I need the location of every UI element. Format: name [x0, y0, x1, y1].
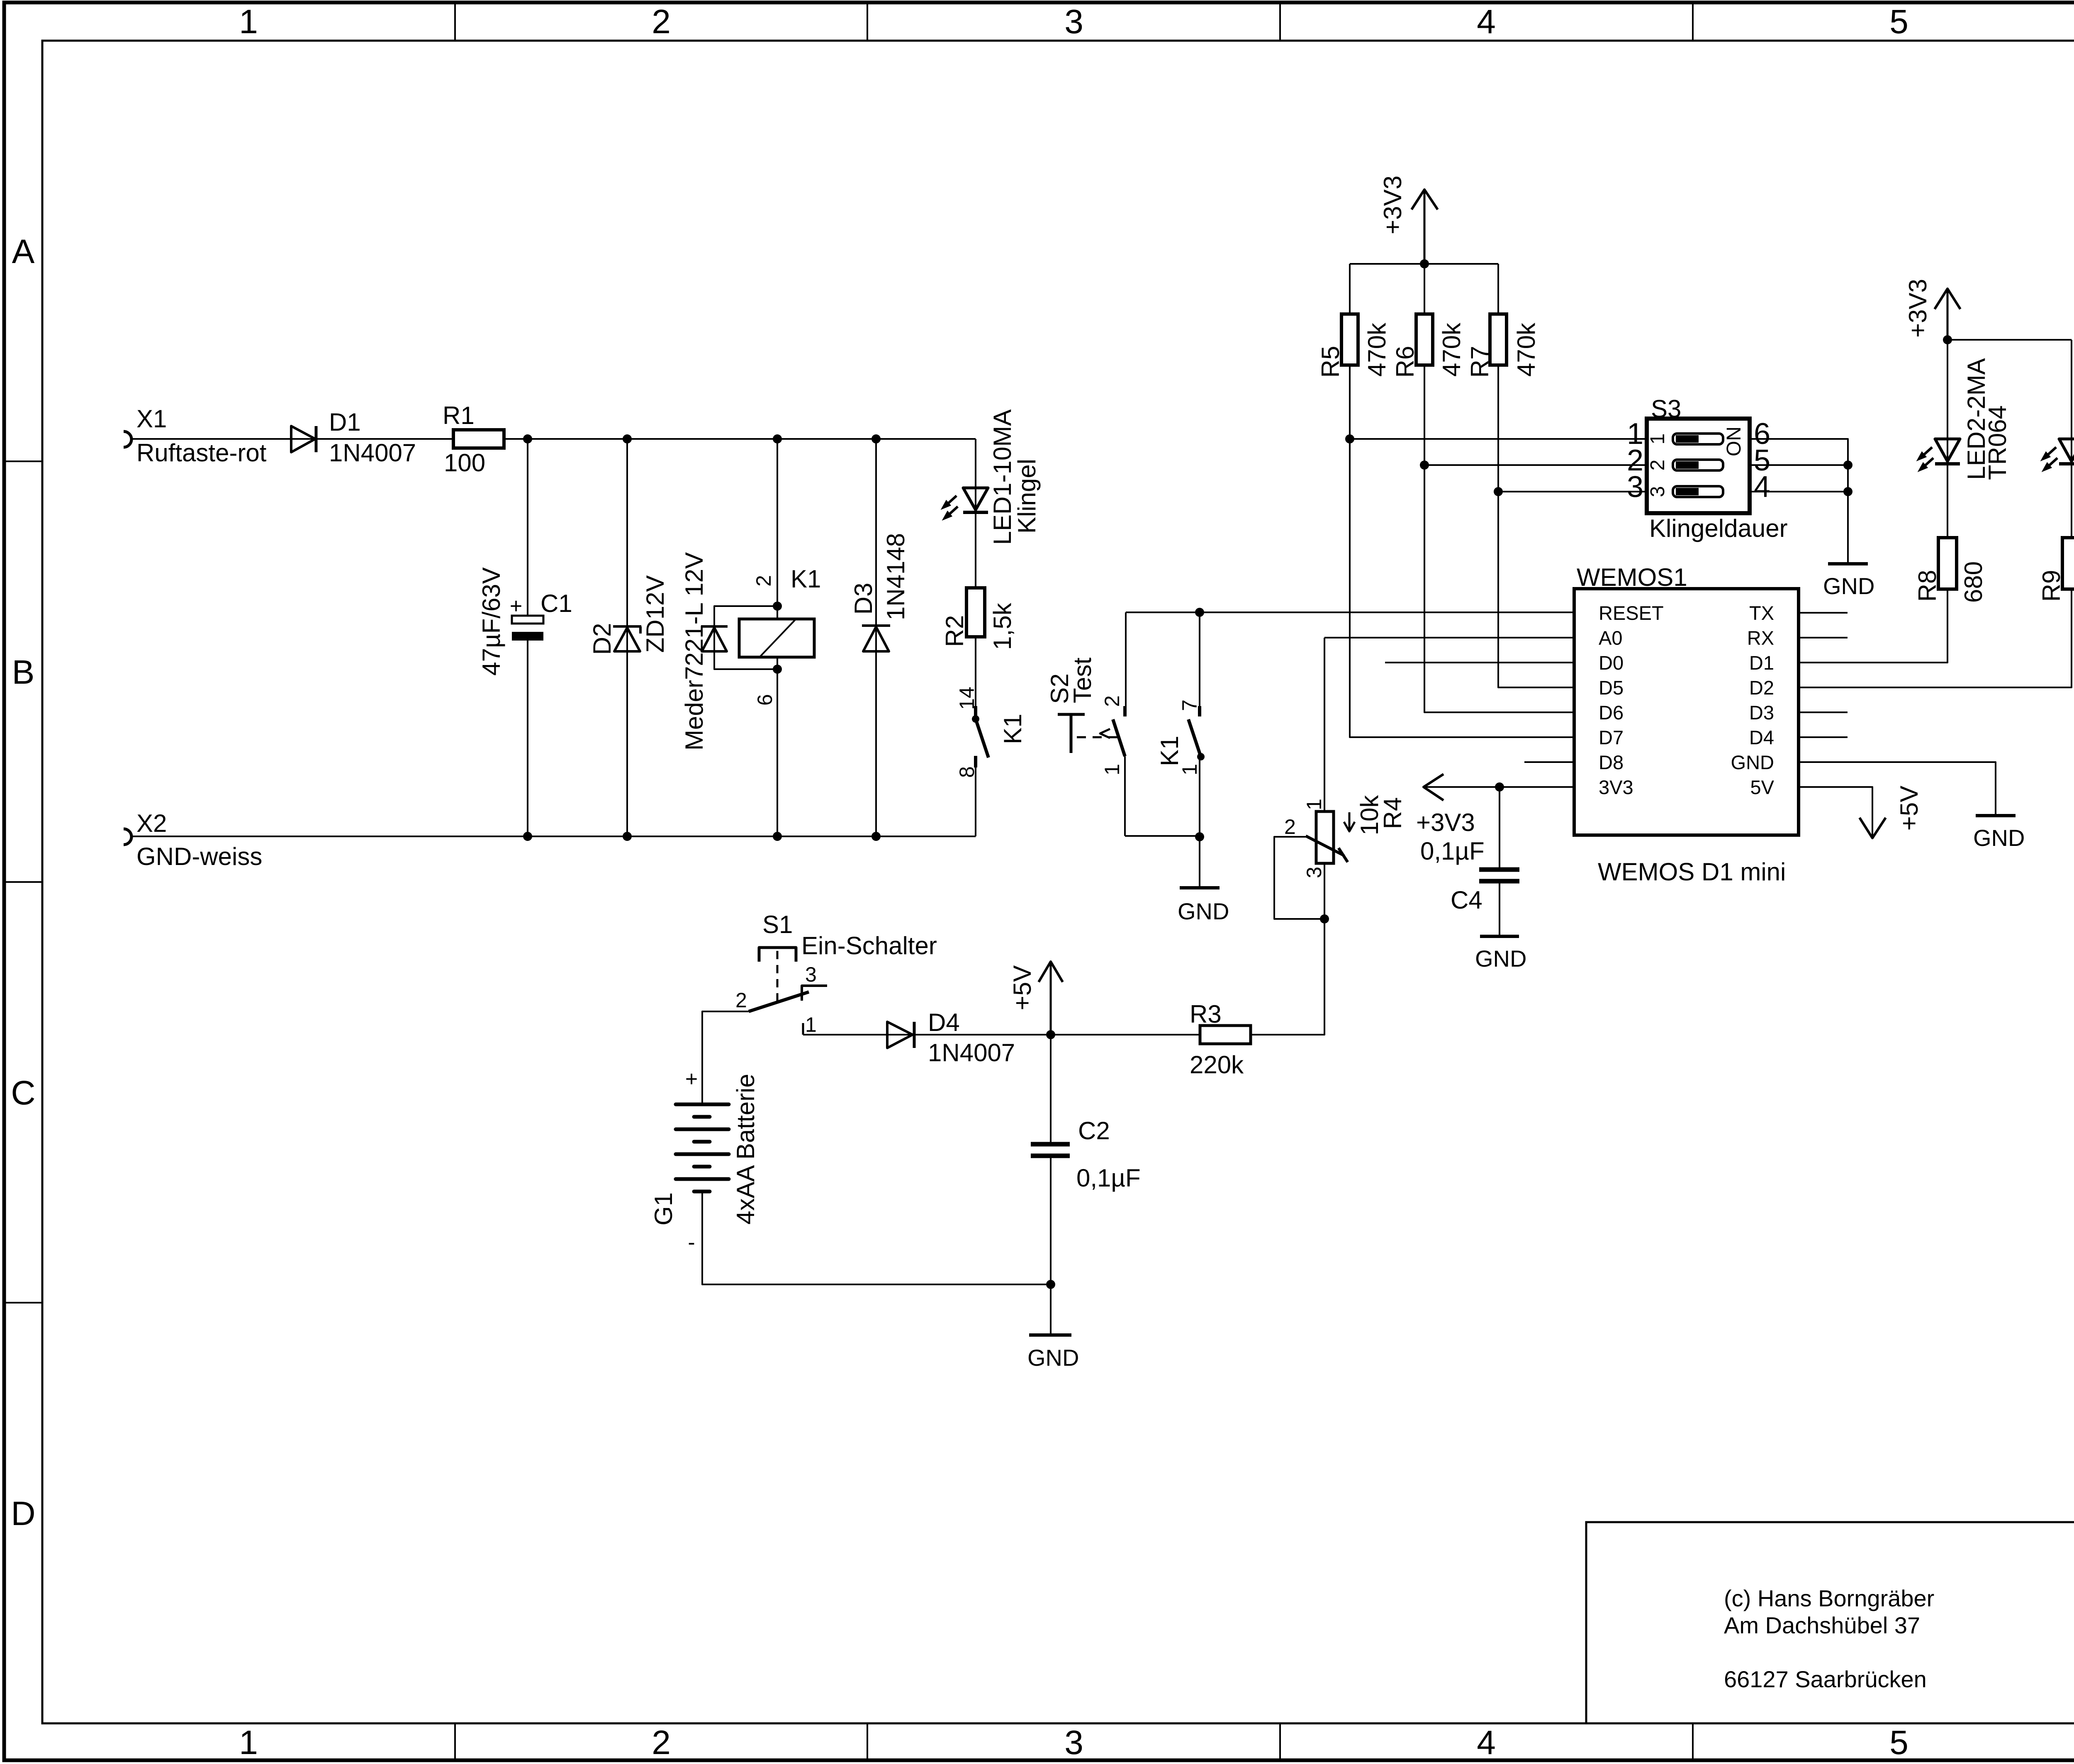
relay K1 coil bracket	[714, 606, 777, 669]
junction bottom rail at C1	[523, 832, 532, 841]
svg-text:100: 100	[444, 449, 485, 477]
wire S2 bottom	[1124, 756, 1126, 836]
svg-text:0,1µF: 0,1µF	[1076, 1164, 1141, 1192]
svg-text:D7: D7	[1599, 726, 1624, 748]
svg-text:+5V: +5V	[1895, 786, 1923, 831]
junction K1 coil pin 6	[773, 665, 782, 674]
wire R6 to D6	[1424, 365, 1574, 712]
switch S1 pin 1 contact	[802, 1023, 804, 1035]
svg-text:2: 2	[652, 1724, 671, 1762]
wire R7 to D5	[1498, 365, 1574, 687]
svg-text:5V: 5V	[1750, 776, 1775, 798]
relay K1 suppressor diode	[701, 625, 728, 628]
svg-text:1: 1	[239, 1724, 258, 1762]
junction R4 pin3/pin2	[1320, 914, 1329, 923]
svg-text:3: 3	[1647, 486, 1669, 497]
title block outline	[1586, 1522, 2074, 1723]
svg-text:D6: D6	[1599, 702, 1624, 724]
wire A0 to R4 pin1	[1324, 638, 1325, 811]
svg-text:470k: 470k	[1438, 322, 1465, 377]
relay contact K1 left	[974, 706, 977, 716]
svg-text:+5V: +5V	[1008, 965, 1036, 1010]
ground symbol WEMOS	[1976, 814, 2016, 817]
wire +3V3 to R9 branch	[1947, 339, 2072, 341]
diode D1	[291, 426, 315, 452]
svg-text:R9: R9	[2037, 570, 2065, 602]
wire K1 coil top	[777, 439, 778, 619]
wire R8 to D1 pin	[1799, 589, 1947, 663]
svg-text:TX: TX	[1749, 602, 1774, 624]
LED1 emission arrows	[948, 496, 957, 503]
wire battery plus to S1	[702, 1011, 749, 1104]
svg-text:D4: D4	[928, 1009, 960, 1036]
svg-text:D2: D2	[1749, 677, 1774, 699]
svg-text:D0: D0	[1599, 652, 1624, 674]
wire K1 contact to bottom rail	[975, 767, 976, 836]
wire 5V pin net	[1799, 787, 1872, 838]
wire S2 to K1 bottom link	[1125, 835, 1200, 837]
svg-text:GND: GND	[1178, 898, 1229, 924]
svg-text:Am Dachshübel 37: Am Dachshübel 37	[1724, 1612, 1920, 1638]
LED LED2	[1935, 439, 1960, 461]
junction RESET at K1 right	[1195, 608, 1204, 617]
svg-text:5: 5	[1889, 1724, 1908, 1762]
resistor R5	[1341, 314, 1358, 365]
wire RESET net	[1126, 612, 1574, 613]
wire D4 stub	[1799, 736, 1848, 738]
wire R2 to K1 contact	[975, 637, 976, 706]
switch S1 blade	[749, 992, 809, 1011]
svg-text:4: 4	[1477, 3, 1496, 41]
supply +5V arrow battery	[1050, 962, 1052, 1035]
svg-text:GND: GND	[1027, 1345, 1079, 1371]
wire C4 top	[1499, 787, 1500, 867]
svg-text:3: 3	[1064, 3, 1083, 41]
svg-text:D5: D5	[1599, 677, 1624, 699]
svg-text:ZD12V: ZD12V	[641, 575, 669, 653]
svg-text:-: -	[688, 1230, 695, 1255]
capacitor C1 positive plate	[512, 616, 543, 624]
DIP switch S3 slider 3	[1673, 486, 1723, 497]
svg-text:220k: 220k	[1190, 1051, 1244, 1079]
svg-text:1: 1	[1647, 434, 1669, 445]
resistor R7	[1490, 314, 1507, 365]
svg-text:+3V3: +3V3	[1379, 175, 1407, 234]
ground symbol S3	[1828, 562, 1868, 565]
DIP switch S3 slider 1	[1673, 434, 1723, 444]
svg-text:TR064: TR064	[1984, 405, 2011, 480]
ground symbol C4	[1480, 935, 1519, 938]
wire R7 top	[1497, 264, 1499, 314]
wire R4 pin3	[1324, 863, 1325, 919]
wire S3 pin4	[1750, 491, 1848, 492]
diode D3	[862, 624, 890, 627]
wire R4 pin2 bracket	[1274, 837, 1324, 919]
junction R5/S3 pin1	[1345, 434, 1354, 443]
wire R3 to R4 riser	[1251, 919, 1324, 1035]
svg-text:GND: GND	[1973, 825, 2025, 851]
junction K1 coil pin 2	[773, 602, 782, 611]
LED3 emission arrows	[2048, 447, 2056, 455]
svg-text:B: B	[12, 653, 35, 691]
wire top rail corner to LED1	[975, 439, 976, 588]
svg-text:7: 7	[1178, 699, 1201, 711]
wire R9 to D2 pin	[1799, 589, 2072, 687]
junction top rail at D3	[871, 434, 881, 443]
svg-text:470k: 470k	[1363, 322, 1391, 377]
svg-text:D3: D3	[850, 583, 877, 615]
svg-text:K1: K1	[999, 714, 1027, 744]
svg-text:47µF/63V: 47µF/63V	[477, 567, 505, 675]
svg-text:D2: D2	[588, 623, 616, 655]
svg-text:A: A	[12, 233, 35, 270]
ground symbol battery	[1029, 1333, 1071, 1337]
svg-text:6: 6	[753, 694, 777, 706]
svg-text:4xAA Batterie: 4xAA Batterie	[732, 1074, 759, 1225]
junction top rail at D2	[623, 434, 632, 443]
frame column dividers	[454, 2, 456, 41]
wire D8 stub	[1524, 761, 1574, 763]
svg-text:R5: R5	[1317, 346, 1344, 378]
wire X2 bottom rail	[131, 836, 976, 837]
svg-text:0,1µF: 0,1µF	[1420, 837, 1485, 865]
svg-text:3: 3	[805, 963, 817, 986]
svg-text:1: 1	[805, 1013, 817, 1036]
wire C1 bottom	[527, 641, 528, 836]
svg-text:R2: R2	[941, 615, 969, 647]
switch S1 pin 3 contact	[802, 986, 827, 1001]
wire S3 pin3	[1498, 491, 1647, 492]
svg-text:66127 Saarbrücken: 66127 Saarbrücken	[1724, 1666, 1927, 1692]
junction R7/S3 pin3	[1494, 487, 1503, 496]
battery G1	[676, 1103, 729, 1106]
junction bottom rail at K1	[773, 832, 782, 841]
svg-text:Klingel: Klingel	[1013, 459, 1041, 534]
resistor R3	[1200, 1026, 1251, 1044]
resistor R1	[453, 430, 504, 448]
wire D0 stub	[1385, 662, 1574, 663]
wire S3 pin2	[1424, 464, 1647, 466]
switch S2 Test	[1123, 706, 1127, 716]
svg-text:Ruftaste-rot: Ruftaste-rot	[136, 439, 267, 467]
capacitor C1 negative plate	[512, 632, 543, 641]
svg-text:WEMOS1: WEMOS1	[1577, 563, 1687, 591]
wire 3V3 pin net	[1424, 786, 1574, 788]
wire LED3 top	[2071, 340, 2072, 538]
svg-text:1N4007: 1N4007	[329, 439, 416, 467]
svg-text:3V3: 3V3	[1599, 776, 1633, 798]
junction bottom rail at D3	[871, 832, 881, 841]
svg-text:+: +	[685, 1067, 698, 1091]
LED2 emission arrows	[1924, 447, 1932, 455]
diode D4	[887, 1022, 913, 1048]
wire RX stub	[1799, 637, 1848, 638]
wire S3 pin1	[1350, 438, 1647, 440]
resistor R9	[2062, 538, 2074, 589]
svg-text:S3: S3	[1651, 395, 1681, 423]
svg-text:3: 3	[1302, 867, 1326, 878]
svg-text:Test: Test	[1069, 658, 1096, 703]
trimmer R4	[1316, 811, 1334, 863]
svg-text:C: C	[11, 1074, 35, 1112]
svg-text:LED1-10MA: LED1-10MA	[988, 409, 1016, 545]
wire S2 drop	[1125, 612, 1127, 706]
capacitor C4	[1479, 867, 1519, 872]
DIP switch S3 slider 2	[1673, 460, 1723, 470]
svg-text:2: 2	[1100, 695, 1124, 707]
switch S1 actuator	[759, 948, 796, 962]
junction C4	[1495, 782, 1504, 792]
junction +3V3 right	[1943, 335, 1952, 344]
wire D3 branch	[875, 439, 877, 836]
svg-text:GND: GND	[1823, 573, 1874, 599]
svg-text:1,5k: 1,5k	[988, 602, 1016, 650]
svg-text:(c) Hans Borngräber: (c) Hans Borngräber	[1724, 1585, 1934, 1611]
svg-text:ON: ON	[1723, 426, 1745, 456]
wire K1 right drop	[1199, 612, 1200, 706]
svg-text:2: 2	[735, 989, 747, 1012]
supply +3V3 arrow top	[1424, 190, 1426, 264]
svg-text:D: D	[11, 1495, 35, 1533]
wire R5 top	[1349, 264, 1351, 314]
junction battery ground node	[1046, 1280, 1055, 1289]
svg-text:GND-weiss: GND-weiss	[136, 843, 262, 870]
svg-text:2: 2	[752, 575, 775, 587]
svg-text:RX: RX	[1747, 627, 1774, 649]
svg-text:S1: S1	[762, 911, 793, 938]
wire +3V3 distribution	[1350, 263, 1498, 265]
wire A0 net	[1324, 637, 1574, 638]
wire S1 pin1 to D4	[803, 1034, 1200, 1035]
relay contact K1 right	[1198, 706, 1201, 716]
junction bottom rail at D2	[623, 832, 632, 841]
svg-text:Meder7221-L 12V: Meder7221-L 12V	[680, 552, 708, 750]
svg-text:R6: R6	[1391, 346, 1419, 378]
trimmer R4 adjust arrow	[1349, 812, 1351, 830]
LED LED1	[963, 488, 988, 510]
wire D3 stub	[1799, 711, 1848, 713]
wire TX stub	[1799, 612, 1848, 614]
relay K1 coil box	[739, 619, 814, 657]
IC WEMOS1 box	[1574, 589, 1799, 835]
svg-text:X2: X2	[136, 809, 167, 837]
svg-text:X1: X1	[136, 405, 167, 433]
svg-text:2: 2	[1284, 815, 1296, 838]
svg-text:+3V3: +3V3	[1904, 279, 1932, 338]
svg-text:470k: 470k	[1512, 322, 1540, 377]
svg-text:14: 14	[955, 687, 979, 710]
svg-text:+: +	[510, 594, 522, 618]
wire C4 bottom	[1499, 883, 1500, 935]
svg-text:GND: GND	[1731, 751, 1774, 773]
wire S3 pin5	[1750, 464, 1848, 466]
junction R6/S3 pin2	[1420, 460, 1429, 470]
resistor R2	[966, 588, 985, 637]
svg-text:2: 2	[1647, 460, 1669, 471]
svg-text:1: 1	[239, 3, 258, 41]
svg-text:WEMOS D1 mini: WEMOS D1 mini	[1598, 858, 1786, 886]
svg-text:1: 1	[1302, 799, 1326, 810]
wire S3 pin6 to ground riser	[1750, 439, 1848, 562]
svg-text:K1: K1	[1156, 736, 1183, 766]
frame row dividers	[4, 460, 42, 462]
svg-text:D1: D1	[1749, 652, 1774, 674]
zener diode D2	[613, 625, 641, 628]
connector X2 pin	[124, 829, 131, 845]
svg-text:3: 3	[1627, 470, 1643, 504]
svg-text:C1: C1	[540, 590, 572, 617]
junction +5V node	[1046, 1030, 1055, 1039]
svg-text:1: 1	[1100, 764, 1124, 775]
wire LED2 top	[1947, 340, 1948, 538]
svg-text:R8: R8	[1913, 570, 1941, 602]
svg-text:3: 3	[1064, 1724, 1083, 1762]
svg-text:D4: D4	[1749, 726, 1774, 748]
svg-text:Ein-Schalter: Ein-Schalter	[801, 932, 937, 960]
svg-text:R4: R4	[1379, 797, 1407, 829]
wire C1 top	[527, 439, 528, 616]
wire battery minus	[702, 1192, 1051, 1284]
svg-text:680: 680	[1960, 561, 1987, 603]
DIP switch S3 box	[1647, 419, 1750, 513]
svg-text:RESET: RESET	[1599, 602, 1664, 624]
wire R6 top	[1424, 264, 1425, 314]
svg-text:D3: D3	[1749, 702, 1774, 724]
resistor R8	[1938, 538, 1957, 589]
svg-text:D1: D1	[329, 408, 361, 436]
supply +5V arrow WEMOS	[1860, 818, 1886, 838]
ground symbol S2/K1	[1180, 886, 1220, 889]
svg-text:C2: C2	[1078, 1117, 1110, 1145]
resistor R6	[1416, 314, 1433, 365]
svg-text:5: 5	[1889, 3, 1908, 41]
svg-text:4: 4	[1754, 470, 1770, 504]
wire D2 branch	[626, 439, 628, 836]
svg-text:R7: R7	[1466, 346, 1494, 378]
wire R5 to D7	[1350, 365, 1574, 737]
wire C2 bottom	[1050, 1158, 1052, 1284]
svg-text:1N4007: 1N4007	[928, 1039, 1015, 1067]
svg-text:GND: GND	[1475, 945, 1526, 972]
svg-text:R1: R1	[443, 402, 475, 429]
svg-text:4: 4	[1477, 1724, 1496, 1762]
svg-text:C4: C4	[1451, 886, 1482, 914]
connector X1 pin	[124, 431, 131, 447]
svg-text:Klingeldauer: Klingeldauer	[1649, 514, 1788, 542]
svg-text:R3: R3	[1190, 1000, 1222, 1028]
svg-text:A0: A0	[1599, 627, 1623, 649]
wire to battery ground	[1050, 1284, 1052, 1333]
supply +3V3 arrow right	[1947, 289, 1949, 340]
svg-text:2: 2	[652, 3, 671, 41]
capacitor C2	[1031, 1142, 1070, 1147]
svg-text:K1: K1	[791, 565, 821, 593]
wire X1 to R1	[131, 438, 453, 440]
junction top rail at C1	[523, 434, 532, 443]
junction S2/K1 ground node	[1195, 832, 1204, 841]
svg-text:+3V3: +3V3	[1416, 809, 1475, 836]
wire K1 coil bottom	[777, 657, 778, 836]
LED LED3	[2059, 439, 2074, 461]
wire GND pin net	[1799, 762, 1996, 814]
wire K1 right bottom	[1199, 757, 1200, 886]
svg-text:G1: G1	[650, 1192, 677, 1226]
wire C2 top	[1050, 1035, 1052, 1142]
junction top rail at K1	[773, 434, 782, 443]
wire R1 to LED branch (top rail)	[504, 438, 976, 440]
supply +3V3 arrow left	[1424, 774, 1444, 800]
svg-text:D8: D8	[1599, 751, 1624, 773]
svg-text:1N4148: 1N4148	[882, 533, 910, 620]
